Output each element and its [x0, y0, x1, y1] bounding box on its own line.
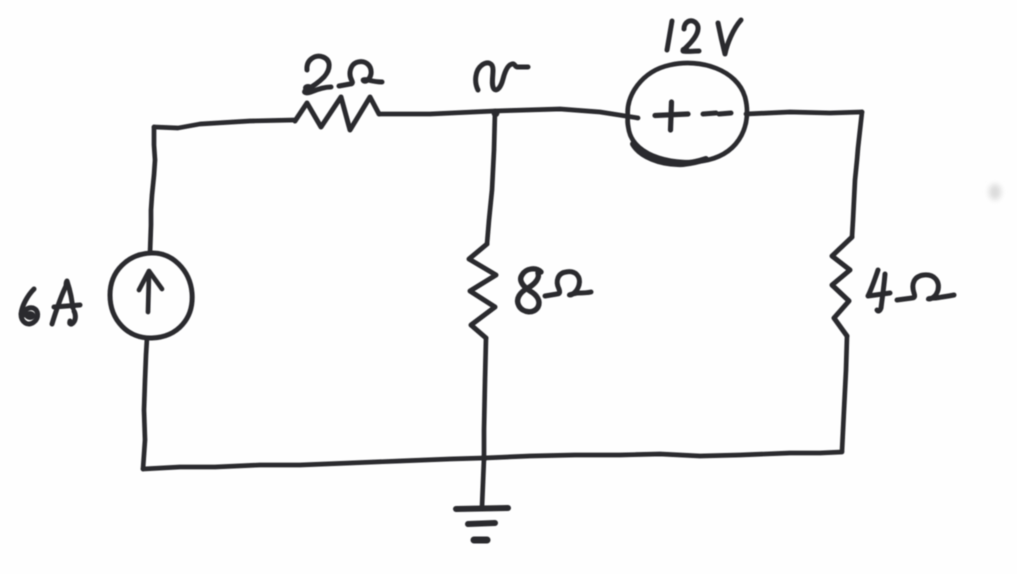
ground bar 3: [474, 537, 487, 544]
label 2 of 2ohm: [305, 56, 331, 93]
plus sign in source: [655, 114, 688, 116]
label 12V: digit 1: [667, 21, 672, 50]
node v junction blob: [492, 109, 500, 117]
voltage source bottom double stroke: [633, 144, 706, 164]
resistor R 2ohm zigzag: [295, 97, 379, 130]
label omega of 8ohm: [545, 272, 591, 296]
current source arrow: [148, 273, 149, 312]
voltage source V 12V circle: [628, 63, 747, 162]
wire right vertical lower: [842, 336, 847, 451]
wire top-right horizontal: [746, 112, 862, 114]
wire middle vertical upper: [487, 111, 495, 244]
wire left vertical upper: [150, 127, 155, 253]
label 4 of 4ohm: [868, 270, 890, 296]
wire top-left horizontal: [154, 120, 295, 128]
ground bar 2: [468, 523, 495, 524]
label omega of 4ohm: [897, 275, 954, 300]
label 12V: digit 2: [683, 21, 699, 52]
label omega of 2ohm: [339, 62, 382, 86]
minus dashes in source: [703, 113, 716, 114]
wire right vertical upper: [852, 112, 862, 237]
label 8 of 8ohm: [518, 269, 541, 312]
wire middle vertical lower: [482, 338, 486, 507]
label node v: [476, 63, 528, 90]
label 12V: letter V: [718, 20, 741, 54]
label 6A: letter A: [52, 281, 73, 324]
junction blob at ground crossing: [481, 455, 488, 462]
label 6A: digit 6: [21, 289, 38, 324]
resistor R 8ohm zigzag: [469, 244, 496, 338]
wire left vertical lower: [143, 338, 147, 469]
wire top-middle horizontal: [379, 109, 638, 118]
current source I 6A circle: [110, 253, 192, 338]
ground bar 1: [456, 508, 508, 509]
resistor R 4ohm zigzag: [832, 237, 852, 336]
wire bottom horizontal: [143, 452, 842, 469]
